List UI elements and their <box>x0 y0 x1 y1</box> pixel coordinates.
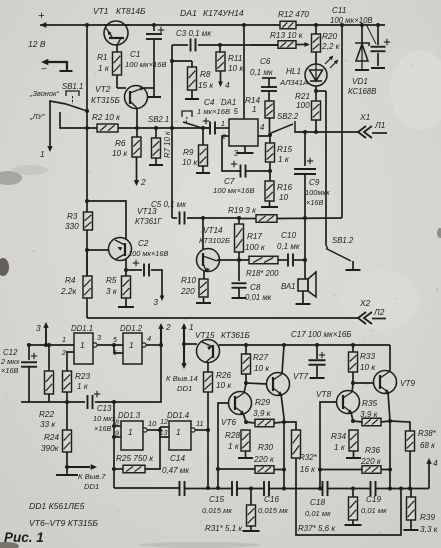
svg-text:100: 100 <box>296 101 310 110</box>
svg-text:DD1: DD1 <box>84 482 99 491</box>
svg-text:DD1 К561ЛЕ5: DD1 К561ЛЕ5 <box>29 501 85 511</box>
resistor R1 <box>113 52 122 75</box>
svg-text:3: 3 <box>36 323 41 333</box>
svg-text:R9: R9 <box>183 148 194 157</box>
svg-text:0,015 мк: 0,015 мк <box>258 506 288 515</box>
resistor R4 <box>86 250 88 276</box>
wire LU throw <box>60 112 97 128</box>
wire bottom row y=402 <box>21 401 85 403</box>
svg-text:0,47 мк: 0,47 мк <box>162 466 190 475</box>
svg-text:SB1.2: SB1.2 <box>332 236 354 245</box>
svg-text:С17 100 мк×16Б: С17 100 мк×16Б <box>291 330 352 339</box>
svg-text:КТ361Г: КТ361Г <box>135 217 162 226</box>
wire DD1.3 out to DD1.4 <box>147 429 160 431</box>
ground chassis R34 <box>346 457 361 459</box>
wire VT8 emitter <box>351 412 353 421</box>
resistor R10 <box>203 271 205 279</box>
svg-text:5: 5 <box>234 107 239 116</box>
bus segment C18 to C19 <box>328 488 371 490</box>
svg-text:0,01 мк: 0,01 мк <box>361 506 387 515</box>
svg-text:×16В: ×16В <box>94 424 112 433</box>
svg-text:2,2 к: 2,2 к <box>321 42 341 51</box>
resistor R39 <box>410 489 412 498</box>
resistor R27 <box>245 345 247 354</box>
svg-text:220: 220 <box>180 287 195 296</box>
transistor VT14 KT3102B <box>197 249 220 272</box>
wire X1 tail <box>372 132 387 134</box>
node 4 arrow <box>428 462 430 489</box>
wire VT8 base <box>320 402 337 489</box>
svg-text:1: 1 <box>62 335 66 344</box>
wire X1 second contact from rail <box>341 25 343 218</box>
ground chassis R37 <box>345 524 362 526</box>
wire R1 to VT2 base <box>116 75 118 88</box>
svg-text:С1: С1 <box>130 50 140 59</box>
svg-text:330: 330 <box>65 222 79 231</box>
capacitor C16 <box>263 481 265 496</box>
svg-text:R20: R20 <box>322 32 337 41</box>
transistor VT7 <box>267 373 290 396</box>
wire bell branch down to SB1.2 <box>325 91 327 246</box>
svg-text:X1: X1 <box>359 112 370 122</box>
svg-text:10 к: 10 к <box>254 364 270 373</box>
node 3 arrow input <box>43 322 48 328</box>
svg-text:10 к: 10 к <box>360 363 376 372</box>
ground chassis R8 <box>185 98 199 100</box>
svg-text:R22: R22 <box>39 410 54 419</box>
svg-text:1 к: 1 к <box>334 443 346 452</box>
ground chassis R5 <box>118 306 134 308</box>
svg-text:DD1.3: DD1.3 <box>118 411 141 420</box>
svg-text:0,015 мк: 0,015 мк <box>202 506 232 515</box>
IC DA1 box <box>229 119 258 146</box>
wire VT13 collector loop <box>87 201 126 240</box>
svg-text:2,2к: 2,2к <box>60 287 77 296</box>
resistor R23 <box>63 371 72 392</box>
wire supply rail y=345 lower <box>219 344 390 346</box>
capacitor C2 electrolytic <box>126 269 142 271</box>
wire VT14 collector row y=260 <box>217 259 249 261</box>
svg-text:1: 1 <box>176 427 181 437</box>
ground chassis R10 <box>196 302 211 304</box>
svg-text:16 к: 16 к <box>300 465 316 474</box>
svg-text:3,9 к: 3,9 к <box>253 409 272 418</box>
svg-text:R7 10 к: R7 10 к <box>163 131 172 158</box>
svg-text:VT15: VT15 <box>195 331 215 340</box>
wire vertical feed x=87 <box>86 25 88 212</box>
svg-text:R35: R35 <box>362 399 377 408</box>
svg-text:13: 13 <box>160 430 168 437</box>
svg-text:R36: R36 <box>365 446 380 455</box>
ground chassis R24 <box>66 467 68 474</box>
wire x=284 down <box>283 422 285 489</box>
svg-text:4: 4 <box>225 80 230 90</box>
svg-text:VT6: VT6 <box>221 418 236 427</box>
svg-text:VT8: VT8 <box>316 390 331 399</box>
capacitor C8 <box>238 260 240 281</box>
svg-text:4: 4 <box>147 334 151 343</box>
svg-text:VT1: VT1 <box>93 6 108 16</box>
svg-text:×16В: ×16В <box>306 198 324 207</box>
svg-text:12 В: 12 В <box>28 39 46 49</box>
svg-text:10 к: 10 к <box>112 149 128 158</box>
wire VT14 base <box>202 218 204 249</box>
svg-text:R8: R8 <box>200 70 211 79</box>
transistor VT8 <box>337 391 360 414</box>
resistor R37 <box>352 489 354 498</box>
wire x=114 to DD1.3 inputs <box>113 402 115 488</box>
minus terminal <box>44 62 67 70</box>
svg-text:КТ814Б: КТ814Б <box>116 6 146 16</box>
svg-text:VT6–VT9 КТ315Б: VT6–VT9 КТ315Б <box>29 518 98 528</box>
svg-text:12: 12 <box>160 419 168 426</box>
resistor R20 <box>315 25 317 34</box>
svg-text:R21: R21 <box>295 92 310 101</box>
svg-text:С12: С12 <box>3 348 18 357</box>
svg-text:2: 2 <box>61 348 66 357</box>
svg-text:1 к: 1 к <box>77 382 89 391</box>
wire R26 column down <box>207 392 209 488</box>
wire DD1.4 out to R26 column <box>195 429 208 431</box>
wire to X1 <box>295 131 358 133</box>
svg-text:2 мкх: 2 мкх <box>0 357 20 366</box>
wire vertical x=172 C3 branch <box>171 45 173 218</box>
bus segment <box>237 488 264 490</box>
bus segment C16 to C18 <box>269 488 323 490</box>
svg-text:С6: С6 <box>260 57 271 66</box>
svg-text:К174УН14: К174УН14 <box>203 8 244 18</box>
svg-text:Л2: Л2 <box>373 307 385 317</box>
svg-text:R33: R33 <box>360 352 375 361</box>
ground chassis R39 <box>404 529 419 531</box>
resistor R12 <box>280 21 296 29</box>
transistor VT6 <box>229 392 252 415</box>
svg-text:1: 1 <box>129 340 134 350</box>
svg-text:+: + <box>38 10 45 22</box>
transistor VT15 KT361B <box>197 340 220 363</box>
wire VT7 collector to rail <box>282 345 284 374</box>
svg-text:R32*: R32* <box>299 453 318 462</box>
ground chassis R31 <box>243 530 260 532</box>
svg-text:R23: R23 <box>75 372 90 381</box>
svg-text:100мкх: 100мкх <box>305 188 330 197</box>
svg-text:С10: С10 <box>281 231 296 240</box>
svg-text:220 к: 220 к <box>253 455 275 464</box>
wire VT9 emitter <box>388 392 390 421</box>
wire X2 tail <box>372 318 386 320</box>
resistor R15 <box>269 135 271 143</box>
svg-text:100 мк×16В: 100 мк×16В <box>125 60 167 69</box>
ground chassis R9 <box>196 172 210 174</box>
svg-text:R16: R16 <box>277 183 292 192</box>
capacitor C12 electrolytic <box>28 345 30 360</box>
svg-text:С14: С14 <box>170 454 185 463</box>
wire node row y=128 <box>118 127 210 129</box>
svg-text:−: − <box>41 64 47 75</box>
svg-text:R34: R34 <box>331 432 346 441</box>
capacitor C5 <box>179 212 181 225</box>
svg-text:0,01 мк: 0,01 мк <box>305 509 331 518</box>
svg-text:R15: R15 <box>277 145 292 154</box>
svg-text:33 к: 33 к <box>40 420 56 429</box>
ground chassis SB1.2 <box>346 269 361 271</box>
ground chassis R7 <box>155 158 157 165</box>
wire pin5 from rail <box>243 25 245 119</box>
svg-text:Рис. 1: Рис. 1 <box>4 530 44 545</box>
svg-text:С19: С19 <box>366 495 381 504</box>
wire VT15 emitter node <box>184 343 197 345</box>
wire R6 to node 2 arrow <box>136 157 138 182</box>
svg-text:R25 750 к: R25 750 к <box>116 454 154 463</box>
svg-text:R19 3 к: R19 3 к <box>228 206 257 215</box>
svg-text:DA1: DA1 <box>180 8 197 18</box>
ground chassis C8 <box>232 297 247 299</box>
wire R11 to pin4 arrow <box>220 71 222 83</box>
svg-text:1 к: 1 к <box>98 64 110 73</box>
svg-text:1: 1 <box>252 105 257 114</box>
svg-text:VT2: VT2 <box>95 84 111 94</box>
svg-text:КТ315Б: КТ315Б <box>91 96 120 105</box>
svg-text:68 к: 68 к <box>420 441 436 450</box>
resistor R32 <box>284 422 296 430</box>
capacitor C15 <box>231 481 233 496</box>
capacitor C13 electrolytic <box>87 395 89 409</box>
svg-text:×16В: ×16В <box>1 366 19 375</box>
svg-text:100 мк×10В: 100 мк×10В <box>330 16 373 25</box>
svg-text:R37* 5,6 к: R37* 5,6 к <box>298 524 336 533</box>
wire pin2 R23 <box>67 352 74 371</box>
wire VT9 collector from rail <box>389 345 391 371</box>
svg-text:390к: 390к <box>41 444 60 453</box>
svg-text:4: 4 <box>260 123 265 132</box>
bus wire y=488 left <box>114 487 179 489</box>
svg-text:R11: R11 <box>228 54 242 63</box>
ground chassis for C1/VT2 emitter <box>147 96 161 98</box>
resistor R18 <box>249 256 278 264</box>
svg-text:1 к: 1 к <box>278 155 290 164</box>
svg-text:DA1: DA1 <box>221 98 236 107</box>
svg-text:DD1: DD1 <box>177 384 192 393</box>
capacitor C18 <box>322 481 324 496</box>
svg-text:К Выв.14: К Выв.14 <box>166 374 198 383</box>
svg-text:С7: С7 <box>224 177 235 186</box>
svg-text:HL1: HL1 <box>286 67 301 76</box>
wire R32 bottom bus <box>296 458 401 535</box>
svg-text:10: 10 <box>279 193 289 202</box>
svg-text:0,01 мк: 0,01 мк <box>245 293 272 302</box>
svg-text:220 к: 220 к <box>360 457 382 466</box>
ground chassis R28 <box>238 457 253 459</box>
ground chassis R16 <box>261 206 278 208</box>
speaker BA1 <box>304 260 306 279</box>
svg-text:SB1.1: SB1.1 <box>62 82 83 91</box>
resistor R11 <box>219 45 221 52</box>
LED HL1 <box>305 64 327 86</box>
wire +12V top rail <box>40 24 280 26</box>
resistor R24 <box>66 402 68 430</box>
capacitor C9 electrolytic <box>304 132 306 166</box>
resistor R34 <box>349 430 358 451</box>
svg-text:2: 2 <box>165 322 171 332</box>
svg-text:ВА1: ВА1 <box>281 282 295 291</box>
arrow K vyv.7 DD1 <box>67 466 90 468</box>
svg-text:0,1 мк: 0,1 мк <box>250 68 274 77</box>
resistor R6 <box>136 128 138 137</box>
resistor R16 <box>265 181 274 201</box>
svg-text:R1: R1 <box>97 53 107 62</box>
svg-text:R3: R3 <box>67 212 78 221</box>
svg-text:R18* 200: R18* 200 <box>246 269 279 278</box>
svg-text:КТ361Б: КТ361Б <box>221 331 250 340</box>
svg-text:КС168В: КС168В <box>348 87 376 96</box>
svg-text:1 к: 1 к <box>228 442 240 451</box>
resistor R22 <box>48 345 50 371</box>
resistor R3 <box>84 212 93 230</box>
resistor R31 <box>250 489 252 506</box>
wire top row lower-left y=345 <box>27 344 74 346</box>
svg-text:9: 9 <box>115 429 119 438</box>
svg-text:Л1: Л1 <box>374 120 385 130</box>
svg-text:1: 1 <box>189 322 194 332</box>
svg-text:0,1 мк: 0,1 мк <box>277 242 301 251</box>
svg-text:С16: С16 <box>264 495 279 504</box>
capacitor C10 <box>287 254 289 267</box>
capacitor C4 <box>203 127 210 129</box>
capacitor C1 <box>153 25 155 31</box>
wire VT8 collector <box>352 384 353 392</box>
svg-text:8: 8 <box>115 418 119 427</box>
resistor R9 <box>202 128 204 145</box>
resistor R14 <box>265 101 274 118</box>
svg-text:R6: R6 <box>115 139 126 148</box>
wire x=390 down <box>389 421 391 489</box>
wire VT6 collector to R27 node <box>244 384 246 393</box>
resistor R17 <box>238 219 240 224</box>
svg-text:С11: С11 <box>332 6 346 15</box>
wire R35 to R38 <box>390 421 410 431</box>
svg-text:К Выв.7: К Выв.7 <box>78 472 106 481</box>
svg-text:SB2.1: SB2.1 <box>148 115 169 124</box>
svg-text:11: 11 <box>196 419 204 428</box>
wire R27 to VT7 base <box>246 383 267 384</box>
resistor R7 <box>155 128 157 138</box>
svg-text:2: 2 <box>140 177 146 187</box>
wire row y=218 C5 to R19 to X1 <box>172 217 177 219</box>
svg-text:„ЛУ“: „ЛУ“ <box>29 112 45 121</box>
wire DD1.2 out down to row y=402 <box>114 345 161 402</box>
svg-text:R17: R17 <box>247 232 262 241</box>
wire VT15 base to R26 <box>207 362 209 372</box>
wire y=45 C3 row <box>172 44 188 46</box>
svg-text:С3 0,1 мк: С3 0,1 мк <box>176 29 212 38</box>
transistor VT13 KT361G <box>109 238 132 261</box>
svg-text:С4: С4 <box>204 98 215 107</box>
LED arrows <box>325 57 332 64</box>
ground chassis C11 <box>371 67 385 69</box>
wire VT7 emitter <box>281 394 284 418</box>
svg-text:DD1.1: DD1.1 <box>71 324 93 333</box>
bus segment right <box>376 488 430 490</box>
switch SB2.1 arm <box>183 122 202 128</box>
svg-text:VT13: VT13 <box>137 207 157 216</box>
capacitor C7 <box>240 165 242 178</box>
resistor R26 <box>204 372 213 392</box>
svg-text:100 к: 100 к <box>245 243 266 252</box>
svg-text:VD1: VD1 <box>352 77 368 86</box>
wire R38 bottom <box>409 451 411 489</box>
svg-text:100 мк×16В: 100 мк×16В <box>213 186 255 195</box>
resistor R21 <box>312 101 321 120</box>
ground chassis BA1 <box>296 303 311 305</box>
switch SB1.1 arm <box>66 104 87 111</box>
svg-text:X2: X2 <box>359 298 371 308</box>
svg-text:R2 10 к: R2 10 к <box>92 113 121 122</box>
wire R33 to VT9 base <box>353 382 374 384</box>
svg-text:15 к: 15 к <box>198 81 214 90</box>
svg-text:10 к: 10 к <box>216 381 232 390</box>
svg-text:R28: R28 <box>225 431 240 440</box>
svg-text:С18: С18 <box>310 498 325 507</box>
svg-text:R4: R4 <box>65 276 76 285</box>
svg-text:3: 3 <box>153 297 158 307</box>
resistor R5 <box>125 270 127 276</box>
svg-text:4: 4 <box>433 458 438 468</box>
svg-text:С8: С8 <box>250 283 261 292</box>
svg-text:3,3 к: 3,3 к <box>420 525 439 534</box>
resistor R28 <box>241 430 250 451</box>
wire VT13 emitter <box>125 259 127 270</box>
svg-text:R30: R30 <box>258 443 273 452</box>
wire VT2 collector down to node <box>136 108 138 128</box>
svg-text:R39: R39 <box>420 513 435 522</box>
svg-text:1: 1 <box>128 427 133 437</box>
svg-text:1: 1 <box>80 340 85 350</box>
svg-text:DD1.4: DD1.4 <box>167 411 190 420</box>
svg-text:R38*: R38* <box>418 429 437 438</box>
svg-text:АЛ341А: АЛ341А <box>279 78 308 87</box>
wire HL1 to R21 and bell branch <box>315 86 317 101</box>
svg-text:R13 10 к: R13 10 к <box>270 31 304 40</box>
resistor R38 <box>406 431 415 451</box>
wire VT13 base <box>87 249 109 251</box>
svg-text:3 к: 3 к <box>106 287 118 296</box>
ground chassis C17 <box>310 377 325 379</box>
transistor VT2 KT315B <box>125 86 148 109</box>
svg-text:R29: R29 <box>255 398 270 407</box>
wire Zvonok throw to node 1 arrow <box>50 101 66 148</box>
svg-text:R12 470: R12 470 <box>278 10 309 19</box>
capacitor C3 <box>190 39 192 52</box>
resistor R33 <box>352 345 354 352</box>
svg-text:R24: R24 <box>44 433 59 442</box>
svg-text:DD1.2: DD1.2 <box>120 324 143 333</box>
wire VT6 base <box>218 403 229 488</box>
svg-text:R27: R27 <box>253 353 268 362</box>
resistor R2 <box>97 124 118 132</box>
wire bottom row to X2 <box>87 317 358 319</box>
svg-text:R14: R14 <box>245 96 260 105</box>
svg-text:С2: С2 <box>138 239 149 248</box>
wire VT1 collector to R1 <box>116 44 118 52</box>
svg-text:R5: R5 <box>106 276 117 285</box>
transistor VT1 KT814B <box>104 21 128 45</box>
svg-text:С9: С9 <box>309 178 320 187</box>
svg-text:1: 1 <box>221 119 225 128</box>
svg-text:VT9: VT9 <box>400 379 415 388</box>
svg-text:10 к: 10 к <box>228 64 244 73</box>
wire DD1.1 out to DD1.2 inputs <box>97 344 123 346</box>
svg-text:10 мкх: 10 мкх <box>93 414 116 423</box>
